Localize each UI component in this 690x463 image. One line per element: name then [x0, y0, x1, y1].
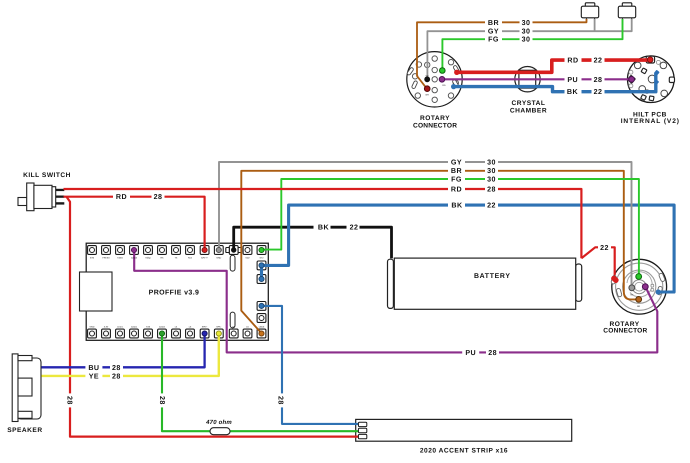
svg-text:30: 30 — [522, 19, 531, 27]
svg-text:BR: BR — [488, 19, 499, 27]
svg-text:2020 ACCENT STRIP x16: 2020 ACCENT STRIP x16 — [420, 447, 508, 454]
svg-text:28: 28 — [112, 372, 121, 380]
svg-text:LED1: LED1 — [117, 325, 123, 328]
svg-text:BATT+: BATT+ — [201, 257, 208, 260]
svg-text:Vdisp: Vdisp — [145, 257, 151, 260]
svg-text:INTERNAL (V2): INTERNAL (V2) — [621, 118, 680, 125]
svg-text:GY: GY — [451, 158, 462, 166]
svg-text:LED6: LED6 — [259, 325, 265, 328]
svg-text:22: 22 — [594, 57, 603, 65]
svg-text:CONNECTOR: CONNECTOR — [413, 122, 457, 129]
svg-text:KILL SWITCH: KILL SWITCH — [23, 172, 71, 179]
svg-text:22: 22 — [600, 244, 609, 252]
svg-text:CHAMBER: CHAMBER — [510, 107, 547, 114]
svg-text:30: 30 — [487, 167, 496, 175]
svg-text:28: 28 — [276, 396, 284, 405]
svg-text:FG: FG — [451, 175, 462, 183]
svg-text:BR: BR — [451, 167, 462, 175]
svg-text:RX: RX — [160, 257, 164, 260]
svg-text:28: 28 — [112, 364, 121, 372]
svg-text:SPK-: SPK- — [216, 325, 221, 328]
svg-text:30: 30 — [487, 175, 496, 183]
svg-text:TxBst: TxBst — [117, 257, 123, 260]
svg-text:Data1: Data1 — [131, 325, 138, 328]
svg-text:BK: BK — [451, 202, 463, 210]
svg-text:Data2: Data2 — [159, 325, 166, 328]
svg-text:Data4: Data4 — [131, 257, 138, 260]
svg-text:28: 28 — [65, 396, 73, 405]
svg-text:PU: PU — [465, 349, 476, 357]
svg-text:SPEAKER: SPEAKER — [7, 427, 42, 434]
svg-text:30: 30 — [522, 28, 531, 36]
svg-text:GY: GY — [426, 75, 430, 78]
svg-text:22: 22 — [487, 202, 496, 210]
svg-text:28: 28 — [487, 186, 496, 194]
svg-text:YE: YE — [89, 372, 99, 380]
svg-text:PROFFIE v3.9: PROFFIE v3.9 — [149, 290, 200, 297]
svg-text:PU: PU — [567, 76, 578, 84]
svg-text:BR: BR — [426, 94, 429, 97]
svg-text:RD: RD — [567, 57, 578, 65]
svg-text:CRYSTAL: CRYSTAL — [512, 100, 546, 107]
svg-text:30: 30 — [487, 158, 496, 166]
svg-text:28: 28 — [488, 349, 497, 357]
svg-text:BK: BK — [318, 224, 330, 232]
svg-text:22: 22 — [594, 88, 603, 96]
svg-text:BK: BK — [567, 88, 579, 96]
svg-text:RD: RD — [451, 186, 462, 194]
svg-text:GND: GND — [216, 257, 221, 260]
svg-text:28: 28 — [594, 76, 603, 84]
svg-text:CONNECTOR: CONNECTOR — [603, 328, 647, 335]
svg-text:SPK+: SPK+ — [202, 325, 208, 328]
svg-text:GY: GY — [630, 294, 634, 297]
svg-text:BR: BR — [637, 305, 640, 308]
svg-text:RD: RD — [116, 193, 127, 201]
svg-text:ROTARY: ROTARY — [420, 115, 450, 122]
svg-text:30: 30 — [522, 36, 531, 44]
svg-text:GND: GND — [90, 325, 95, 328]
svg-text:FG: FG — [488, 36, 499, 44]
svg-text:BATTERY: BATTERY — [474, 273, 511, 280]
svg-text:FREE3: FREE3 — [102, 257, 110, 260]
svg-text:470 ohm: 470 ohm — [205, 419, 232, 426]
svg-text:BU: BU — [88, 364, 99, 372]
svg-text:3.3V: 3.3V — [104, 325, 109, 328]
svg-text:22: 22 — [350, 224, 359, 232]
svg-text:28: 28 — [158, 396, 166, 405]
svg-text:GY: GY — [488, 28, 499, 36]
svg-text:28: 28 — [154, 193, 163, 201]
svg-text:RD: RD — [442, 84, 446, 87]
